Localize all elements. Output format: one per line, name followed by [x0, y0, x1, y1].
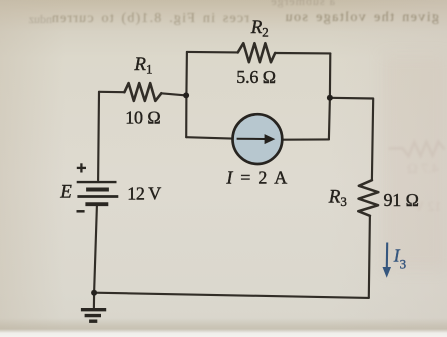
svg-text:4.7 Ω: 4.7 Ω — [407, 162, 439, 178]
wire: current source to box corner — [283, 138, 329, 140]
wire: top wire left segment — [187, 51, 238, 54]
wire: parallel-box left vertical — [185, 52, 188, 137]
wire: R3 bottom lead down to corner — [369, 216, 370, 298]
current source arrow — [237, 134, 276, 144]
junction node dot (left) — [183, 92, 189, 98]
wire: parallel-box right vertical — [329, 53, 330, 139]
svg-text:E: E — [59, 181, 72, 202]
wire: junction to right corner, down to R3 — [330, 98, 373, 180]
wire: ground stem — [93, 293, 95, 308]
svg-text:R2: R2 — [250, 17, 269, 40]
resistor R2 zigzag — [238, 43, 276, 62]
svg-text:R1: R1 — [133, 54, 152, 77]
svg-text:I3: I3 — [393, 245, 406, 271]
svg-text:R3: R3 — [328, 186, 347, 209]
current I3 blue arrow — [383, 243, 392, 278]
svg-text:5.6 Ω: 5.6 Ω — [236, 67, 276, 87]
minus sign — [77, 210, 85, 213]
wire: left vertical (source branch) — [97, 92, 100, 181]
junction node dot (right) — [327, 95, 333, 101]
faint bleed marks right column — [385, 124, 447, 235]
ground symbol — [81, 310, 106, 322]
wire: bottom return wire — [94, 293, 369, 298]
svg-text:12 V: 12 V — [127, 184, 161, 204]
wire: bottom branch to current source — [186, 137, 232, 138]
current source I circle — [233, 114, 283, 164]
wire: top wire right segment — [275, 52, 330, 55]
junction node dot (bottom) — [91, 290, 97, 296]
svg-text:10 Ω: 10 Ω — [125, 108, 161, 128]
svg-text:12 V: 12 V — [414, 200, 442, 215]
wire: R1 to left junction node — [161, 93, 186, 95]
svg-text:91 Ω: 91 Ω — [384, 190, 420, 210]
wire: battery bottom to ground node — [94, 206, 97, 293]
wire: top-left corner to R1 — [99, 91, 124, 94]
resistor R3 zigzag — [358, 180, 378, 216]
battery E plates — [77, 182, 119, 204]
bottom page-edge: shadow then white strip — [0, 318, 447, 337]
resistor R1 zigzag — [124, 83, 161, 101]
bleed-through mirrored text from reverse page — [0, 0, 447, 34]
plus sign — [77, 163, 86, 172]
svg-text:I = 2 A: I = 2 A — [225, 167, 289, 187]
